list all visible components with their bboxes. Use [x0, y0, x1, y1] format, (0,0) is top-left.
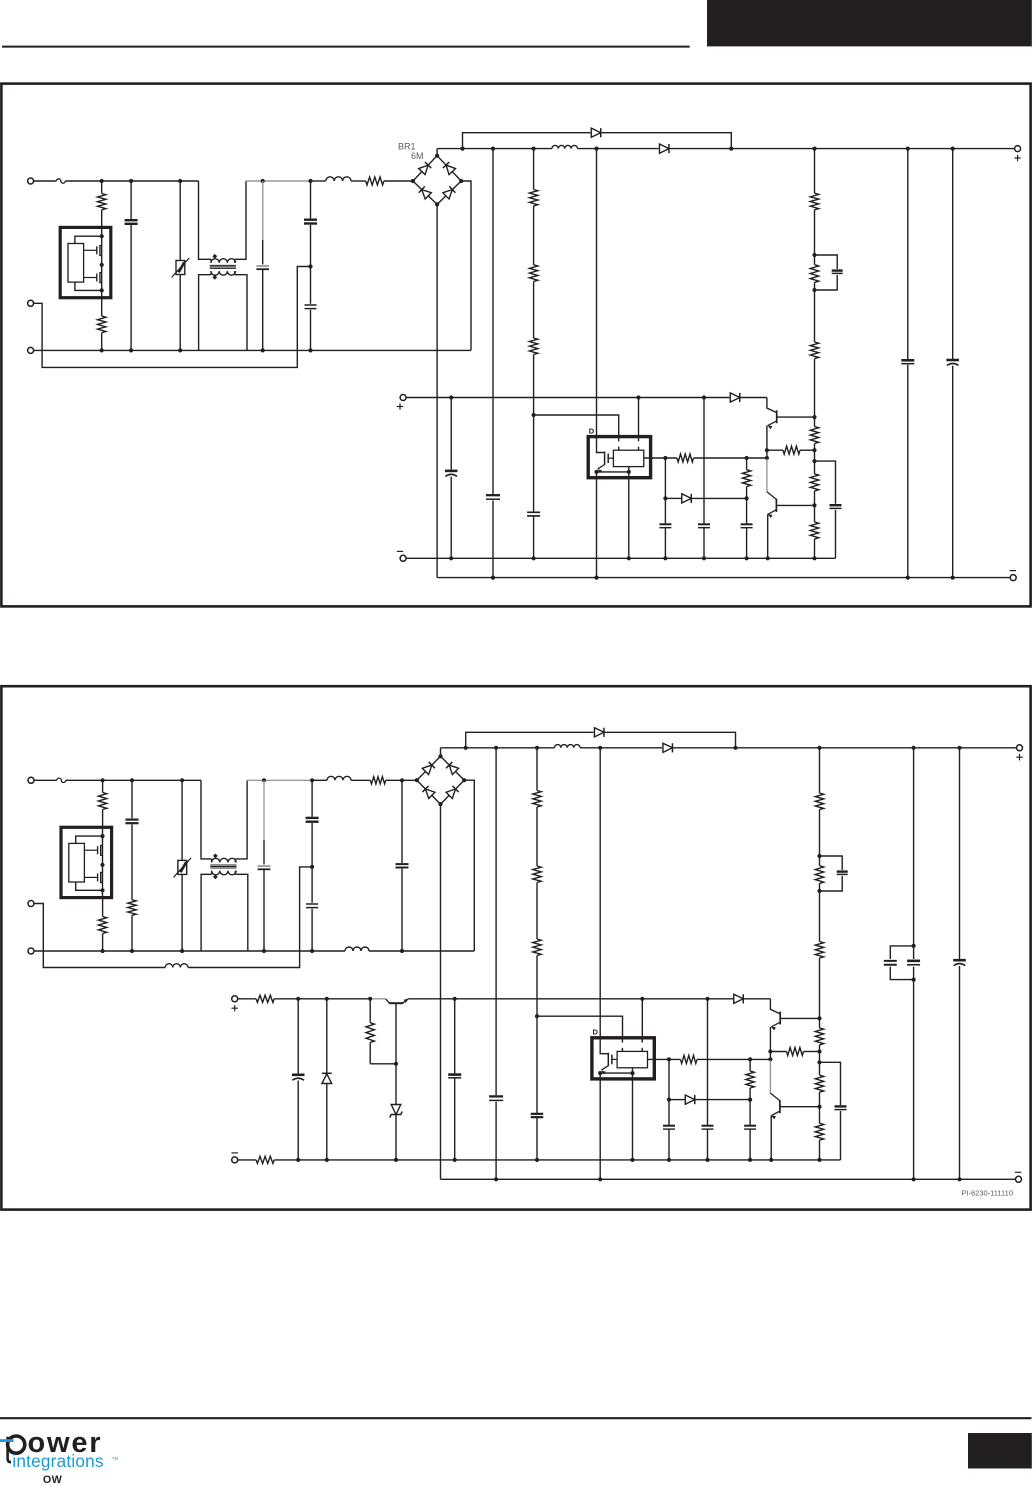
svg-text:BR1: BR1	[398, 142, 416, 152]
svg-text:D: D	[593, 1028, 599, 1037]
svg-text:PI-6230-111110: PI-6230-111110	[961, 1189, 1013, 1198]
svg-text:D: D	[589, 426, 595, 435]
svg-text:integrations: integrations	[12, 1451, 103, 1471]
svg-text:OW: OW	[43, 1474, 63, 1485]
svg-text:6M: 6M	[411, 151, 424, 161]
svg-text:TM: TM	[112, 1456, 119, 1461]
